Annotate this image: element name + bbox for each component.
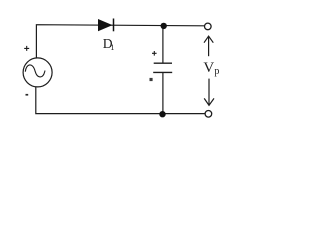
svg-text:1: 1: [110, 42, 114, 52]
svg-text:p: p: [214, 66, 219, 77]
svg-text:V: V: [203, 60, 214, 76]
